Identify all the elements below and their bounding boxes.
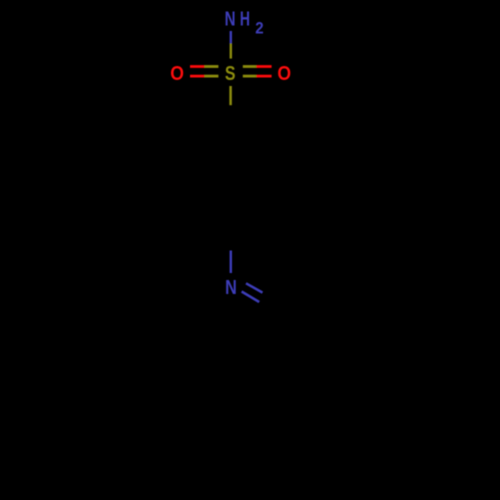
bond N-S (sulfur half) (230, 43, 232, 58)
svg-text:S: S (225, 63, 236, 85)
svg-text:O: O (170, 63, 184, 85)
svg-text:N: N (225, 9, 236, 31)
bond N-S (blue half) (230, 31, 232, 43)
svg-text:N: N (225, 277, 237, 299)
double bond N=C, inner line (nitrogen half) (242, 292, 260, 303)
svg-text:H: H (240, 9, 250, 31)
amide NH2 label (225, 9, 264, 38)
svg-text:2: 2 (255, 20, 263, 38)
double bond N=C, main line (nitrogen half) (246, 283, 263, 292)
bond C=N into imine N from above (nitrogen half) (230, 251, 232, 274)
double bond S=O left, bottom line (190, 75, 204, 78)
double bond S=O right, top line (243, 65, 257, 68)
double bond S=O left, top line (190, 65, 204, 68)
bond S-C below S (sulfur half, carbon half invisible) (229, 86, 232, 105)
double bond S=O right, bottom line (243, 75, 257, 78)
svg-text:O: O (277, 63, 291, 85)
